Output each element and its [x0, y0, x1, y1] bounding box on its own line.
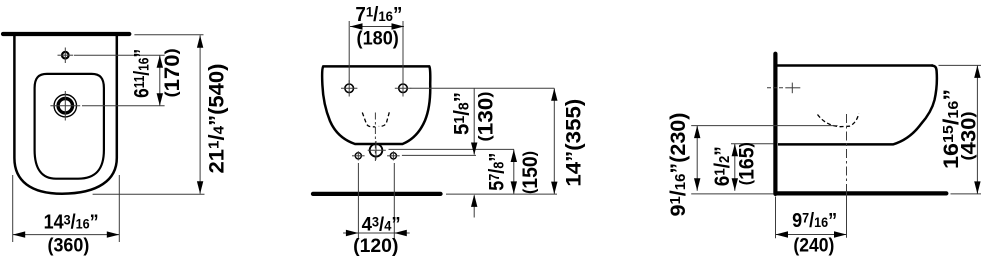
- svg-text:61/2”: 61/2”: [711, 146, 734, 186]
- svg-text:51/8”: 51/8”: [451, 92, 474, 135]
- svg-text:(240): (240): [793, 235, 834, 257]
- svg-text:14”(355): 14”(355): [563, 99, 586, 187]
- svg-text:43/4”: 43/4”: [362, 214, 401, 236]
- svg-text:(180): (180): [357, 27, 399, 49]
- svg-text:143/16”: 143/16”: [44, 211, 99, 233]
- svg-text:(430): (430): [958, 112, 981, 161]
- svg-text:(130): (130): [475, 92, 498, 142]
- svg-text:611/16”: 611/16”: [131, 49, 154, 98]
- svg-text:(120): (120): [353, 235, 398, 257]
- svg-text:(170): (170): [161, 48, 184, 97]
- svg-text:(150): (150): [519, 151, 542, 194]
- svg-text:(165): (165): [736, 142, 759, 185]
- svg-text:(360): (360): [48, 234, 90, 256]
- svg-text:211/4”(540): 211/4”(540): [205, 64, 228, 174]
- svg-text:57/8”: 57/8”: [486, 153, 509, 191]
